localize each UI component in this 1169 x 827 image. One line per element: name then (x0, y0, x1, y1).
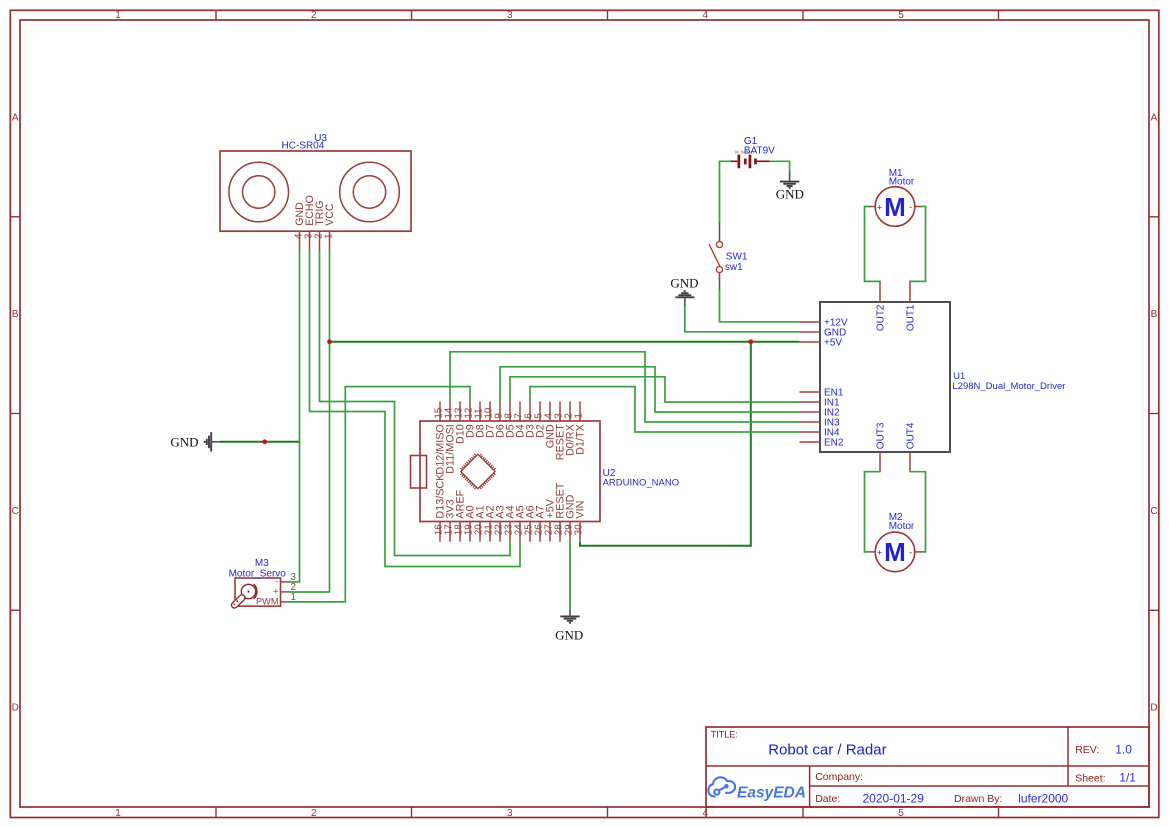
U1 pin IN4 (800, 428, 841, 439)
U1 pin IN3 (800, 418, 841, 429)
wire ground to U1 GND pin (685, 306, 800, 332)
U1 pin OUT2 (876, 282, 887, 331)
U1 pin IN2 (800, 408, 841, 419)
svg-text:Drawn By:: Drawn By: (954, 793, 1002, 805)
motor M2 (869, 532, 921, 572)
wire +5V branch to VIN (580, 342, 751, 546)
svg-text:D1/TX: D1/TX (575, 424, 587, 455)
svg-text:+: + (877, 548, 882, 558)
M3 pin 1 PWM (256, 592, 296, 606)
svg-text:5: 5 (898, 10, 904, 21)
mcu U2 ARDUINO_NANO body (411, 421, 601, 522)
wire D9 to servo PWM (290, 387, 470, 602)
drawn by field (954, 791, 1069, 805)
U1 pin OUT3 (876, 422, 887, 472)
wire M1 minus to OUT1 (910, 207, 926, 283)
U1 pin OUT4 (906, 422, 917, 472)
svg-text:REV:: REV: (1075, 744, 1099, 756)
U3 pin 1 VCC (324, 203, 336, 251)
ground GND below U2 (555, 611, 583, 643)
svg-text:Motor: Motor (889, 521, 915, 532)
wire switch top lead (719, 222, 721, 241)
svg-text:-: - (275, 577, 278, 587)
svg-text:Robot car / Radar: Robot car / Radar (768, 742, 886, 759)
U3 pin 3 ECHO (304, 195, 316, 251)
EasyEDA logo (708, 777, 806, 801)
svg-text:VIN: VIN (575, 501, 587, 519)
svg-text:-: - (909, 202, 912, 212)
U2 pin 2 D0/RX (563, 402, 576, 457)
U1 pin IN1 (800, 398, 841, 409)
wire battery plus to switch (720, 161, 732, 222)
rev field (1075, 743, 1132, 757)
svg-text:M: M (884, 192, 906, 222)
motor M1 (869, 187, 921, 227)
svg-text:Company:: Company: (815, 771, 863, 783)
svg-text:HC-SR04: HC-SR04 (282, 141, 325, 152)
U2 pin 26 A7 (533, 505, 546, 541)
U2 pin 11 D8 (473, 402, 486, 439)
svg-text:PWM: PWM (256, 597, 278, 607)
svg-text:M: M (884, 537, 906, 567)
svg-text:C: C (12, 506, 19, 517)
svg-text:Sheet:: Sheet: (1075, 772, 1105, 784)
U2 pin 8 D5 (503, 402, 516, 439)
wire D3 to IN4 (530, 387, 800, 432)
svg-text:2020-01-29: 2020-01-29 (863, 791, 925, 805)
U2 pin 5 D2 (533, 402, 546, 439)
junction +5V at VCC (327, 339, 332, 344)
wire D6 to IN2 (500, 367, 800, 412)
svg-text:1.0: 1.0 (1115, 743, 1132, 757)
wire U2 GND pin29 to ground (569, 542, 571, 611)
svg-text:OUT4: OUT4 (906, 422, 917, 449)
U2 pin 17 3V3 (443, 499, 456, 541)
svg-text:B: B (1151, 309, 1158, 320)
svg-text:3: 3 (507, 808, 513, 819)
svg-text:1: 1 (115, 808, 121, 819)
M3 refdes label (229, 558, 287, 579)
driver U1 L298N body (820, 302, 950, 452)
U1 pin EN2 (800, 438, 844, 449)
svg-text:GND: GND (776, 186, 804, 201)
svg-text:2: 2 (311, 10, 317, 21)
ground GND left (170, 432, 220, 451)
svg-text:D: D (12, 703, 19, 714)
U3 pin 4 GND (294, 202, 306, 251)
U2 pin 28 RESET (553, 482, 566, 542)
junction on ground-left wire (262, 439, 267, 444)
wire OUT3 to M2 plus (865, 472, 881, 552)
svg-text:OUT3: OUT3 (876, 422, 887, 449)
wire TRIG to A4 (320, 251, 511, 556)
svg-text:3: 3 (507, 10, 513, 21)
U2 pin 29 GND (563, 494, 576, 541)
U2 pin 10 D7 (483, 402, 496, 439)
svg-text:OUT1: OUT1 (906, 304, 917, 331)
svg-text:30: 30 (573, 524, 584, 535)
svg-text:A: A (12, 112, 19, 123)
svg-text:1: 1 (324, 234, 335, 239)
U2 chip die symbol (460, 454, 495, 489)
U2 pin 1 D1/TX (573, 402, 586, 455)
U2 pin 22 A3 (493, 505, 506, 541)
wire M1 plus to OUT2 (865, 207, 881, 283)
U2 pin 18 AREF (453, 489, 466, 541)
svg-text:EN2: EN2 (824, 438, 844, 449)
M1 refdes label (889, 168, 915, 187)
U2 pin 27 +5V (543, 498, 556, 541)
wire ground-left to sensor GND line (220, 441, 300, 443)
U2 pin 25 A6 (523, 505, 536, 541)
svg-text:GND: GND (555, 627, 583, 642)
U2 pin 6 D3 (523, 402, 536, 439)
title text (711, 729, 887, 758)
U2 pin 14 D11/MOSI (443, 402, 456, 474)
wire battery minus to ground (770, 161, 790, 171)
M3 pin 2 + (273, 582, 296, 596)
wire sensor GND down to servo pin3 (290, 251, 300, 582)
wire VCC sensor to +5V and servo pin2 (290, 251, 330, 593)
U2 refdes label (603, 468, 680, 489)
svg-text:4: 4 (703, 10, 709, 21)
M3 pin 3 - (275, 572, 296, 586)
svg-text:B: B (12, 309, 19, 320)
wire switch bottom lead (719, 273, 721, 291)
svg-text:Motor: Motor (889, 176, 915, 187)
svg-text:EasyEDA: EasyEDA (737, 784, 806, 801)
U1 pin OUT1 (906, 282, 917, 331)
servo M3 Motor_Servo body (230, 578, 280, 609)
U2 pin 16 D13/SCK (433, 473, 446, 542)
U2 pin 21 A2 (483, 505, 496, 541)
svg-text:sw1: sw1 (725, 262, 743, 273)
svg-text:-: - (909, 547, 912, 557)
svg-text:TITLE:: TITLE: (711, 729, 738, 739)
svg-text:C: C (1150, 506, 1157, 517)
sensor U3 HC-SR04 body (220, 151, 411, 231)
U2 pin 23 A4 (503, 505, 516, 541)
SW1 refdes label (725, 252, 748, 273)
svg-text:5: 5 (898, 808, 904, 819)
U1 pin EN1 (800, 388, 844, 399)
svg-text:1/1: 1/1 (1119, 771, 1136, 785)
U2 pin 9 D6 (493, 402, 506, 439)
svg-text:1: 1 (115, 10, 121, 21)
wire D5 to IN1 (510, 377, 800, 402)
svg-text:VCC: VCC (324, 203, 336, 226)
U1 pin GND (800, 328, 847, 339)
date field (815, 791, 924, 805)
svg-text:OUT2: OUT2 (876, 304, 887, 331)
U2 pin 24 A5 (513, 505, 526, 541)
wire D11 to IN3 (450, 352, 800, 422)
U2 pin 30 VIN (573, 501, 586, 542)
U3 pin 2 TRIG (314, 200, 326, 250)
U1 refdes label (952, 371, 1065, 392)
title block (706, 727, 1149, 818)
U3 refdes label (282, 133, 328, 152)
svg-text:BAT9V: BAT9V (744, 145, 775, 156)
svg-text:GND: GND (670, 276, 698, 291)
svg-text:1: 1 (291, 592, 296, 603)
U2 pin 13 D10 (453, 402, 466, 445)
junction +5V at VIN branch (748, 339, 753, 344)
svg-text:D: D (1150, 703, 1157, 714)
U2 pin 15 D12/MISO (433, 402, 446, 475)
svg-text:2: 2 (311, 808, 317, 819)
U2 pin 12 D9 (463, 402, 476, 439)
wire +5V rail (330, 341, 800, 343)
svg-text:L298N_Dual_Motor_Driver: L298N_Dual_Motor_Driver (952, 381, 1065, 392)
sheet field (1075, 771, 1136, 785)
M2 refdes label (889, 512, 915, 532)
U2 pin 3 RESET (553, 402, 566, 461)
U2 pin 20 A1 (473, 505, 486, 541)
switch SW1 (709, 241, 723, 272)
U1 pin +12V (800, 318, 848, 329)
wire ECHO to A5 (310, 251, 521, 567)
svg-text:A: A (1151, 112, 1158, 123)
U2 pin 7 D4 (513, 402, 526, 439)
wire OUT4 to M2 minus (910, 472, 926, 552)
svg-text:+: + (877, 202, 882, 212)
ground GND above U1 (670, 276, 698, 307)
svg-text:+: + (273, 587, 278, 597)
U2 pin 19 A0 (463, 505, 476, 541)
svg-text:1: 1 (573, 413, 584, 418)
svg-text:+5V: +5V (824, 338, 842, 349)
ground GND at battery (776, 171, 804, 201)
battery G1 BAT9V (731, 150, 770, 169)
svg-text:ARDUINO_NANO: ARDUINO_NANO (603, 478, 680, 489)
svg-text:GND: GND (170, 434, 198, 449)
wire switch to U1 +12V (720, 291, 800, 322)
U1 pin +5V (800, 338, 843, 349)
U2 pin 4 GND (543, 402, 556, 449)
G1 refdes label (744, 136, 775, 156)
svg-text:lufer2000: lufer2000 (1018, 791, 1068, 805)
svg-text:Date:: Date: (815, 793, 840, 805)
